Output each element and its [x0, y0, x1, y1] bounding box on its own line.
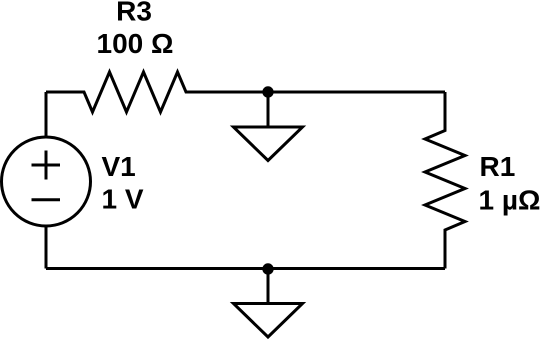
svg-text:1 µΩ: 1 µΩ: [479, 185, 540, 216]
svg-text:R3: R3: [116, 0, 152, 27]
svg-text:V1: V1: [102, 151, 136, 182]
svg-text:1 V: 1 V: [102, 184, 144, 215]
svg-text:R1: R1: [480, 151, 516, 182]
svg-text:100 Ω: 100 Ω: [97, 28, 174, 59]
